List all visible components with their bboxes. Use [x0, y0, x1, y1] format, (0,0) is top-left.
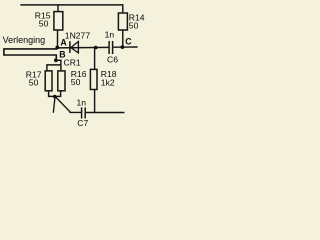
wire C6 to node C to output	[113, 46, 137, 48]
resistor R16	[58, 69, 87, 91]
wire node B to R16	[56, 60, 61, 70]
svg-text:CR1: CR1	[64, 57, 81, 67]
wire C7 to bottom right	[86, 112, 125, 114]
wire R14 bottom lead to node C	[122, 30, 124, 47]
wire diagonal junction to C7	[56, 97, 81, 112]
node B	[54, 49, 66, 62]
capacitor C7	[77, 98, 89, 129]
svg-text:50: 50	[29, 78, 39, 88]
svg-text:50: 50	[71, 77, 81, 87]
wire R16 bottom lead	[60, 91, 62, 97]
svg-text:50: 50	[129, 21, 139, 31]
wire bridge to R17	[47, 65, 61, 71]
svg-text:1N277: 1N277	[65, 31, 91, 41]
svg-text:1k2: 1k2	[101, 78, 115, 88]
svg-text:1n: 1n	[77, 98, 87, 108]
wire node A to diode to junction to C6	[57, 46, 108, 49]
svg-text:Verlenging: Verlenging	[3, 35, 46, 45]
node junction diode/R18/C6	[94, 46, 98, 50]
svg-text:C: C	[125, 36, 132, 46]
wire stub below junction	[53, 98, 55, 113]
wire bottom bridge R17-R16	[48, 95, 61, 97]
transmission line Verlenging (cable rectangle)	[3, 35, 57, 60]
resistor R17	[26, 69, 52, 91]
svg-text:50: 50	[39, 19, 49, 29]
wire top rail	[20, 4, 123, 6]
resistor R15	[35, 10, 63, 30]
node A	[55, 37, 67, 49]
wire R18 bottom lead	[94, 89, 96, 113]
wire R17 bottom lead	[48, 91, 50, 97]
wire R18 top lead	[94, 48, 96, 70]
resistor R18	[90, 69, 116, 90]
wire R14 top lead	[122, 4, 124, 12]
wire R15 top lead	[57, 5, 59, 11]
svg-text:C6: C6	[107, 54, 118, 64]
svg-text:C7: C7	[77, 118, 88, 128]
diode CR1 1N277	[64, 31, 91, 68]
svg-text:1n: 1n	[105, 30, 115, 40]
node junction R17/R16	[53, 95, 57, 99]
capacitor C6	[105, 30, 119, 65]
resistor R14	[118, 12, 144, 30]
node C	[121, 36, 133, 49]
wire R15 bottom lead to node A	[57, 30, 59, 47]
